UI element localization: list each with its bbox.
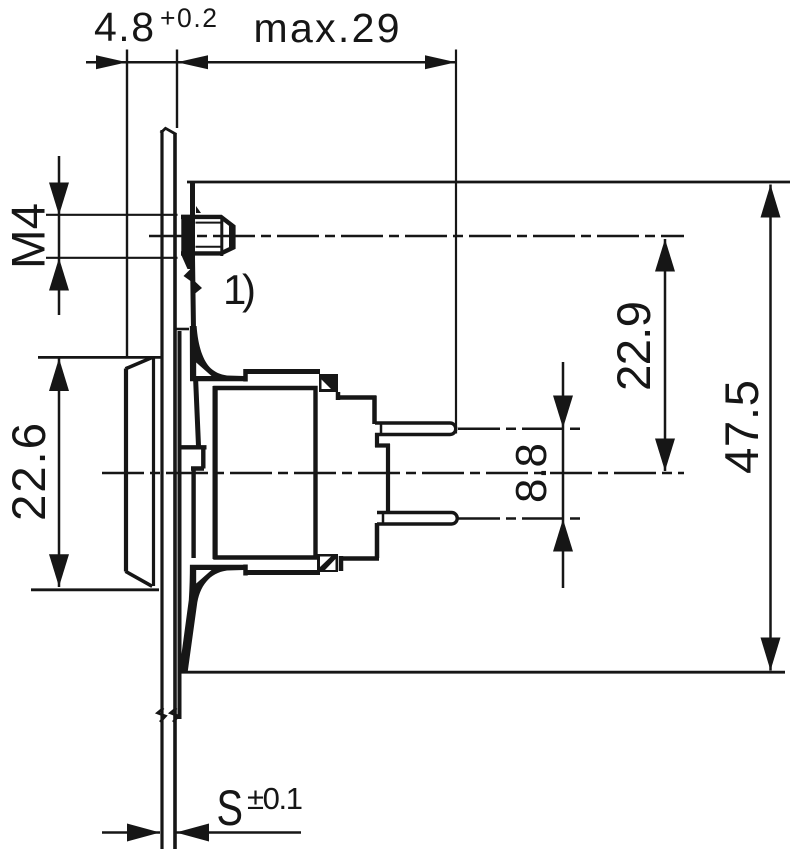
- svg-text:M4: M4: [3, 203, 56, 269]
- M4 extension lines: [46, 215, 178, 258]
- panel break mark back: [171, 708, 179, 722]
- M4 stud chamfer line: [220, 216, 223, 256]
- centerline upper pin: [458, 428, 582, 431]
- S arrow left: [127, 824, 160, 842]
- funnel top fillet blob with neck top edge: [190, 326, 244, 381]
- M4 stud outline: [181, 217, 233, 254]
- svg-text:47.5: 47.5: [716, 380, 769, 474]
- centerline lower pin: [458, 517, 582, 520]
- 8.8 dimension line: [562, 362, 565, 588]
- back part top edge: [336, 395, 377, 400]
- M4 stud right face: [229, 226, 234, 248]
- centerline stud: [149, 235, 684, 238]
- dome button front face: [124, 369, 128, 572]
- 47.5 arrow lower: [761, 638, 781, 671]
- back part below lower pin: [375, 523, 380, 558]
- 22.6 dimension line: [58, 358, 61, 587]
- terminal pin upper: [375, 423, 456, 435]
- top dimension line 4.8 / max.29: [86, 61, 456, 64]
- svg-text:S: S: [217, 780, 244, 836]
- flange nub upper: [196, 206, 201, 213]
- housing cap top edge: [244, 369, 320, 374]
- terminal pin lower: [377, 513, 457, 525]
- housing cap bottom edge: [244, 570, 320, 575]
- arrowhead 4.8 left: [96, 55, 127, 69]
- M4 dimension line: [58, 156, 61, 315]
- funnel top white sliver: [196, 363, 211, 377]
- back part step below upper pin: [375, 433, 390, 514]
- 22.9 arrow upper: [655, 239, 675, 272]
- svg-text:22.9: 22.9: [608, 301, 661, 391]
- extension tick at panel back: [176, 50, 178, 129]
- corner mark top right: [319, 374, 338, 392]
- mounting flange outer line: [193, 181, 199, 446]
- back part top left corner: [336, 392, 341, 400]
- panel back line: [173, 134, 177, 849]
- corner mark bottom right: [317, 554, 338, 572]
- 22.9 dimension line: [664, 239, 667, 471]
- M4 stud collar taper below: [181, 255, 195, 269]
- spring bottom cap and notch: [181, 446, 207, 558]
- housing front plate: [213, 386, 218, 559]
- funnel bottom white sliver: [196, 570, 211, 584]
- dome top chamfer: [126, 358, 152, 369]
- dome inner edge line: [152, 358, 155, 586]
- M4 stud collar fill: [181, 215, 195, 256]
- housing inner box: [216, 388, 316, 558]
- dome bottom edge with 22.6 extension: [31, 588, 159, 591]
- extension tick at pin tips: [455, 50, 457, 434]
- M4 arrow upper: [49, 183, 69, 216]
- flange nub left: [184, 269, 191, 281]
- dome bottom chamfer: [126, 571, 153, 586]
- back part right edge upper: [372, 396, 377, 424]
- M4 arrow lower: [49, 258, 69, 291]
- S dimension line: [102, 831, 301, 834]
- svg-text:8.8: 8.8: [507, 443, 556, 503]
- flange nub right: [195, 281, 203, 294]
- 47.5 arrow upper: [761, 185, 781, 218]
- svg-text:+0.2: +0.2: [160, 3, 217, 33]
- housing cap bottom step: [243, 565, 248, 576]
- svg-text:1): 1): [223, 266, 256, 313]
- 22.6 arrow lower: [49, 554, 69, 587]
- top extension line (flange top edge): [187, 181, 790, 184]
- spring inner line: [178, 331, 182, 719]
- back part bottom edge: [339, 556, 379, 561]
- spring top tick: [177, 328, 190, 331]
- svg-text:22.6: 22.6: [3, 423, 56, 521]
- 22.9 arrow lower: [655, 439, 675, 472]
- panel top chamfer: [161, 128, 177, 134]
- 47.5 dimension line: [769, 185, 772, 671]
- housing cap top step: [243, 369, 248, 382]
- arrowhead 4.8/max.29 at 177: [177, 55, 208, 69]
- svg-text:±0.1: ±0.1: [247, 781, 303, 816]
- arrowhead max.29 right: [425, 55, 456, 69]
- bottom extension line (flange bottom edge): [178, 671, 785, 674]
- M4 stud thread lines: [196, 223, 222, 247]
- dome top edge with 22.6 extension: [38, 356, 161, 359]
- 22.6 arrow upper: [49, 358, 69, 391]
- extension tick at dome front: [126, 50, 128, 357]
- svg-text:4.8: 4.8: [94, 4, 154, 50]
- funnel bottom fillet blob with neck bottom edge and flange slant: [179, 565, 243, 671]
- back part bottom left corner: [339, 556, 344, 571]
- panel break mark front: [158, 708, 166, 722]
- S arrow right: [176, 824, 209, 842]
- 8.8 arrow lower (outside): [553, 519, 573, 552]
- centerline main axis: [102, 472, 684, 475]
- panel front line: [160, 130, 163, 849]
- 8.8 arrow upper (outside): [553, 396, 573, 429]
- svg-text:max.29: max.29: [254, 5, 400, 51]
